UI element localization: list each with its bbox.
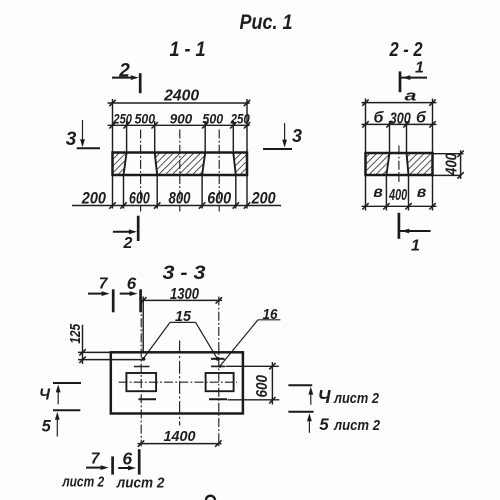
svg-text:2400: 2400: [163, 88, 199, 105]
svg-text:а: а: [405, 87, 417, 104]
svg-text:600: 600: [129, 189, 150, 208]
svg-text:1: 1: [415, 60, 424, 77]
svg-text:Ч: Ч: [318, 387, 332, 407]
svg-text:лист 2: лист 2: [116, 475, 165, 492]
svg-text:б: б: [374, 109, 385, 126]
svg-text:400: 400: [388, 187, 407, 204]
svg-text:5: 5: [42, 418, 52, 436]
svg-text:1 - 1: 1 - 1: [170, 38, 206, 61]
svg-text:в: в: [417, 184, 426, 201]
svg-text:250: 250: [113, 111, 133, 127]
svg-text:6: 6: [127, 274, 137, 293]
svg-text:лист 2: лист 2: [61, 475, 104, 491]
svg-text:б: б: [416, 109, 427, 126]
svg-text:7: 7: [99, 276, 109, 293]
svg-text:лист 2: лист 2: [333, 418, 380, 434]
svg-text:5: 5: [319, 415, 329, 434]
svg-text:300: 300: [390, 111, 411, 128]
svg-text:600: 600: [254, 375, 271, 398]
svg-text:1400: 1400: [164, 428, 197, 445]
svg-text:200: 200: [81, 189, 107, 208]
svg-text:2: 2: [123, 235, 133, 252]
svg-text:500: 500: [135, 111, 156, 127]
svg-text:900: 900: [170, 111, 193, 127]
svg-text:в: в: [373, 184, 382, 201]
svg-text:6: 6: [122, 448, 132, 468]
svg-text:Рис. 1: Рис. 1: [240, 11, 293, 34]
svg-text:лист 2: лист 2: [333, 391, 379, 407]
svg-text:1: 1: [411, 238, 420, 255]
svg-text:600: 600: [207, 189, 231, 208]
svg-text:200: 200: [251, 189, 276, 208]
svg-text:3: 3: [292, 126, 302, 146]
svg-text:400: 400: [443, 153, 460, 176]
svg-text:800: 800: [169, 189, 191, 208]
svg-text:16: 16: [263, 306, 279, 323]
svg-text:2 - 2: 2 - 2: [389, 39, 423, 61]
svg-text:125: 125: [67, 323, 84, 344]
svg-text:1300: 1300: [170, 286, 199, 303]
svg-text:3 - 3: 3 - 3: [163, 262, 206, 284]
svg-text:7: 7: [91, 450, 101, 467]
svg-text:3: 3: [66, 129, 77, 150]
svg-text:Ч: Ч: [39, 387, 51, 404]
